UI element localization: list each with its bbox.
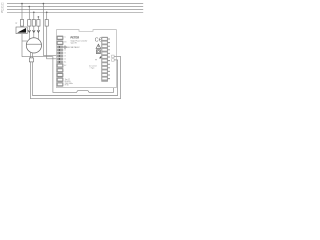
svg-text:13: 13 xyxy=(64,50,66,52)
wire F2 to motor xyxy=(33,26,35,38)
fuse F3 xyxy=(37,20,40,27)
node tap F1 on L2 xyxy=(29,6,31,8)
connector chevron 1 xyxy=(28,30,31,32)
svg-text:PETER: PETER xyxy=(71,36,80,40)
left strip labels xyxy=(64,37,67,44)
node tap F2 on N xyxy=(33,12,35,14)
controller U1 outline xyxy=(57,30,117,88)
motor divider chord xyxy=(27,43,42,45)
wire drop F3 upper xyxy=(37,17,39,20)
class II square symbol xyxy=(97,50,101,54)
wire starter stub to motor xyxy=(22,40,27,42)
ramp icon dot xyxy=(96,59,97,60)
wire starter down xyxy=(21,34,23,57)
svg-text:# Type: # Type xyxy=(90,68,95,70)
bus rail L2 xyxy=(7,6,143,8)
svg-text:Type VB: Type VB xyxy=(71,43,77,45)
PE earth symbol xyxy=(64,46,66,48)
warning triangle xyxy=(96,44,101,48)
svg-text:230V 50Hz: 230V 50Hz xyxy=(65,83,73,85)
wire contact 2 to edge xyxy=(114,59,116,61)
bus rail L3 xyxy=(7,8,143,10)
svg-text:VB 230-12: VB 230-12 xyxy=(71,47,80,49)
svg-text:Nr 0255: Nr 0255 xyxy=(65,81,71,83)
bus rail L1 xyxy=(7,3,143,5)
wire motor out b xyxy=(32,53,34,58)
svg-text:14: 14 xyxy=(64,53,66,55)
connector chevron 3 xyxy=(37,30,40,32)
left terminal strip xyxy=(57,36,64,87)
fuse F4 xyxy=(45,20,48,27)
soft starter ramp triangle xyxy=(17,28,26,33)
bus rail N xyxy=(7,11,143,13)
wire control N drop xyxy=(47,26,57,59)
wire sensor a down-around xyxy=(31,56,121,98)
wire contact 1 to edge xyxy=(114,55,116,57)
wire control L drop xyxy=(43,4,56,56)
wire F3 to motor xyxy=(37,26,39,39)
wire drop F2 upper xyxy=(33,12,35,19)
node tap F4 on N xyxy=(46,12,48,14)
node tap D1 on L1 xyxy=(21,3,23,5)
wire sensor b down-around xyxy=(33,60,118,96)
right terminal strip xyxy=(102,37,110,82)
soft starter T1 box xyxy=(16,27,27,34)
motor M1 circle xyxy=(26,38,41,53)
svg-text:24: 24 xyxy=(64,59,66,61)
wire Q1 to starter xyxy=(21,25,23,28)
fuse F2 xyxy=(32,20,35,27)
bottom left text block xyxy=(65,79,73,87)
breaker Q1 xyxy=(20,20,23,27)
wire motor out a xyxy=(30,52,32,58)
svg-text:IP 20: IP 20 xyxy=(65,85,69,87)
motor terminal box xyxy=(29,58,33,62)
wire F1 to motor xyxy=(28,26,30,39)
output contact square 1 xyxy=(112,55,115,58)
svg-text:Typ 17: Typ 17 xyxy=(65,79,70,81)
wire drop F1 upper xyxy=(28,7,30,20)
node tap F3 stub xyxy=(38,16,40,18)
wire drop F4 upper xyxy=(46,12,48,19)
svg-text:1L: 1L xyxy=(64,37,66,39)
connector chevron 2 xyxy=(33,30,36,32)
wire drop D1 upper xyxy=(21,4,23,20)
wire starter bottom run xyxy=(22,57,114,93)
node tap control L on L1 xyxy=(43,3,45,5)
svg-text:23: 23 xyxy=(64,56,66,58)
ramp icon small xyxy=(99,56,101,59)
fuse F1 xyxy=(28,20,31,27)
output contact square 2 xyxy=(112,59,115,62)
svg-text:N: N xyxy=(1,11,3,14)
svg-text:C€: C€ xyxy=(95,38,102,44)
